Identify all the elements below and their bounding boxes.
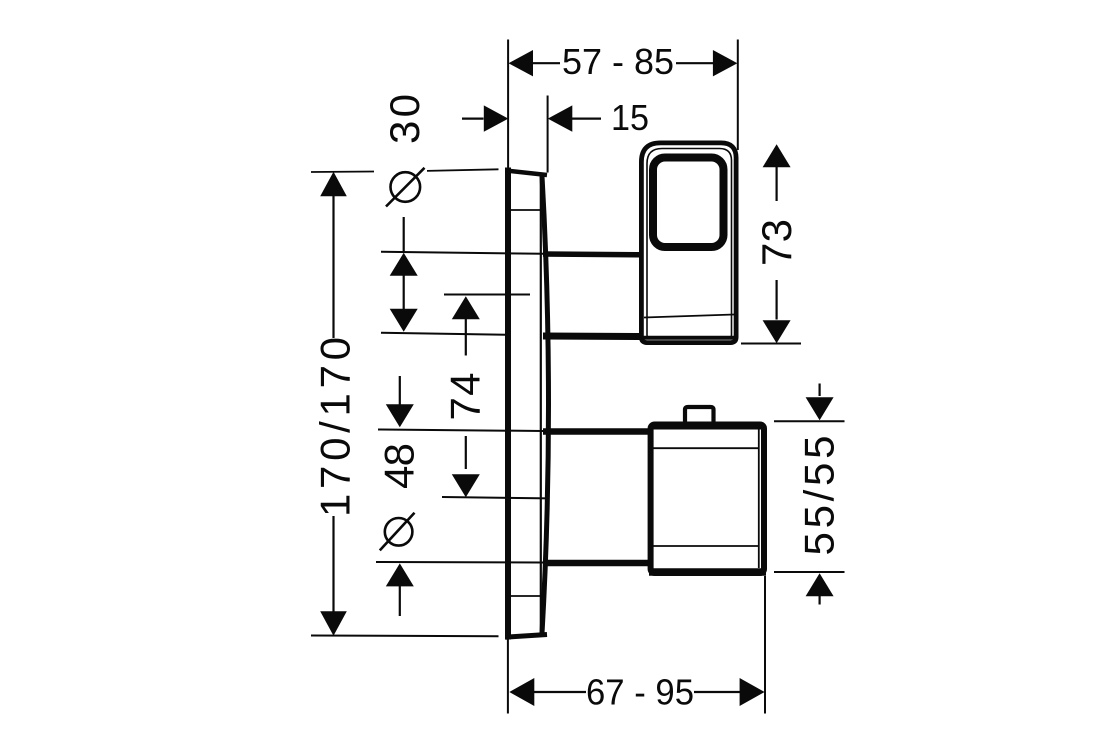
extension line lower stem bottom (376, 561, 543, 564)
diameter symbol for 30 (391, 172, 421, 202)
dimension 57-85 right line (676, 62, 714, 64)
dimension dia48 upper tail (399, 376, 401, 405)
dimension 74 down arrow (452, 474, 480, 497)
upper handle bezel line (647, 149, 732, 339)
svg-text:48: 48 (376, 443, 423, 489)
dimension 15 right tail (572, 117, 601, 119)
diameter symbol for 48 (385, 518, 413, 546)
dimension 67-95 right arrow (740, 678, 765, 706)
dimension 74 upper tail (465, 319, 467, 356)
svg-text:57 - 85: 57 - 85 (562, 41, 674, 82)
svg-text:30: 30 (381, 94, 428, 144)
dimension 15 right arrow (548, 105, 573, 131)
dimension dia48 lower tail (399, 586, 401, 616)
dimension 170/170 top arrow (320, 172, 347, 197)
lower knob top tab (685, 407, 714, 423)
dimension 73 upper tail (775, 167, 777, 201)
extension line 15 vertical (547, 96, 549, 173)
svg-text:170/170: 170/170 (312, 337, 359, 517)
svg-text:55/55: 55/55 (795, 436, 842, 556)
dimension 15 left arrow (484, 105, 509, 131)
extension line upper stem top (381, 252, 543, 254)
upper handle stem bottom line (543, 333, 641, 341)
wall plate bottom edge (506, 635, 548, 638)
extension line plate top right segment (427, 169, 499, 171)
dimension dia48 up arrow (386, 563, 414, 586)
lower knob face line (758, 428, 760, 568)
extension line upper handle axis (444, 294, 530, 296)
extension line lower stem top (378, 430, 543, 432)
dimension dia48 down arrow (386, 404, 414, 427)
dimension 73 up arrow (763, 144, 791, 167)
upper handle window ring (653, 158, 724, 248)
lower knob stem top line (543, 428, 650, 435)
svg-text:73: 73 (753, 219, 800, 266)
dimension 55/55 down arrow (806, 397, 834, 420)
lower knob lower inner line (653, 545, 759, 547)
svg-text:74: 74 (441, 373, 488, 421)
wall plate lower corner line (511, 595, 541, 597)
lower knob top edge reinforcement (649, 425, 765, 430)
dimension 55/55 up arrow (806, 573, 834, 596)
dimension 57-85 right arrow (713, 50, 738, 76)
dimension 57-85 left line (532, 62, 560, 64)
extension line top right vertical (737, 40, 739, 151)
dimension 74 up arrow (452, 296, 480, 319)
svg-text:15: 15 (611, 97, 649, 138)
dimension 73 down arrow (763, 320, 791, 343)
dimension 55/55 bottom tail (818, 596, 820, 605)
dimension 67-95 left line (534, 691, 587, 693)
extension line plate bottom (311, 635, 499, 638)
lower knob stem bottom line (543, 560, 650, 567)
extension line top left vertical (507, 40, 509, 171)
dimension 67-95 left arrow (509, 678, 534, 706)
upper handle outer contour (641, 143, 736, 343)
extension line upper stem bottom (381, 333, 506, 335)
lower knob upper inner line (653, 447, 759, 449)
dimension 170/170 lower line (332, 516, 334, 613)
extension line lower knob axis (442, 497, 548, 498)
lower knob bottom edge reinforcement (649, 568, 766, 576)
upper handle bottom cap (642, 336, 736, 340)
lower knob body outline (651, 425, 764, 574)
wall plate right edge arc (542, 176, 549, 634)
dimension 55/55 bottom extension line (774, 571, 845, 573)
dimension 170/170 bottom arrow (320, 611, 347, 636)
dimension 57-85 left arrow (509, 50, 534, 76)
dimension dia30 up arrow (390, 253, 418, 276)
dimension dia30 mid line (403, 275, 405, 310)
dimension 55/55 top extension line (774, 420, 845, 422)
extension line bottom right vertical (764, 576, 766, 714)
svg-text:67 - 95: 67 - 95 (586, 672, 694, 713)
dimension 73 bottom extension line (741, 343, 801, 345)
wall plate left edge (505, 168, 511, 640)
extension line bottom left vertical (507, 639, 509, 714)
dimension dia30 tail (403, 217, 405, 252)
dimension dia30 down arrow (390, 309, 418, 332)
extension line plate top (311, 171, 374, 174)
dimension 55/55 top tail (818, 384, 820, 397)
dimension 15 left tail (462, 117, 484, 119)
dimension 74 lower tail (465, 436, 467, 469)
dimension 67-95 right line (694, 691, 740, 693)
dimension 73 lower tail (775, 280, 777, 320)
dimension 170/170 upper line (332, 195, 334, 338)
wall plate face line (540, 177, 542, 633)
upper handle separator line (644, 315, 734, 318)
wall plate top edge (506, 171, 548, 176)
wall plate upper corner line (511, 209, 541, 211)
upper handle stem top line (543, 251, 641, 257)
